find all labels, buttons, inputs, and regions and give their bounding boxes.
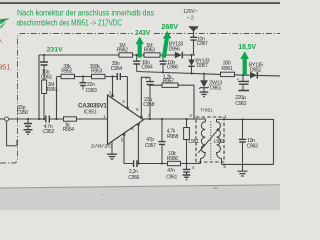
resistor R958 4.7k (vertical) — [167, 119, 190, 164]
junction rail M / D951 — [203, 73, 205, 75]
resistor R953 150k — [90, 64, 105, 79]
svg-text:+: + — [237, 78, 240, 83]
capacitor C953 22n — [80, 77, 98, 94]
svg-text:R958: R958 — [167, 134, 178, 140]
top border line — [0, 2, 280, 4]
svg-text:CA3035V1: CA3035V1 — [78, 102, 107, 109]
svg-text:C954: C954 — [111, 66, 122, 72]
svg-text:47n: 47n — [167, 168, 175, 174]
resistor R956 10k — [167, 151, 181, 166]
wire: input shield loop — [7, 121, 17, 146]
ground below C963 — [238, 164, 248, 176]
svg-text:120V~: 120V~ — [183, 9, 198, 15]
ground (pin 2/8/10) — [107, 142, 117, 159]
wire: 120V input feed — [193, 31, 195, 55]
120V~ input — [183, 9, 199, 31]
pin terminal nubs on triangle — [112, 95, 143, 136]
connector circle input — [5, 117, 9, 121]
capacitor C952 4.7n (series) — [43, 116, 54, 136]
wire: R957 branch — [150, 85, 194, 119]
capacitor C963 10n — [239, 119, 258, 164]
svg-text:268V: 268V — [161, 22, 178, 31]
junction output / R958 — [185, 118, 187, 120]
svg-text:D956: D956 — [169, 47, 180, 53]
svg-text:R963: R963 — [144, 47, 155, 53]
green 243V + arrow — [133, 28, 152, 58]
junction S / bias drop — [55, 118, 57, 120]
capacitor C950 15p — [17, 105, 33, 134]
svg-text:L952: L952 — [214, 139, 225, 145]
svg-text:+: + — [145, 77, 148, 82]
svg-text:R956: R956 — [167, 156, 178, 162]
svg-text:C964: C964 — [141, 65, 152, 71]
junction S / C950 — [27, 118, 29, 120]
junction rail M / D957 — [190, 72, 192, 74]
shield boundary chain line — [0, 34, 280, 164]
resistor R957 1.2k — [162, 74, 178, 87]
svg-text:rs: rs — [195, 26, 198, 30]
svg-text:L951: L951 — [188, 139, 199, 145]
junction bias / C953 — [82, 75, 84, 77]
resistor R954 1k — [63, 117, 77, 133]
adjustment arrow — [198, 129, 219, 153]
green 18,5V + arrow — [238, 42, 256, 75]
wire: bottom path W — [124, 163, 201, 165]
wire: rail T 231V — [39, 54, 195, 56]
small smudges — [101, 194, 106, 196]
junction rail T / C951 string — [43, 54, 45, 56]
diode D952 BY135 — [249, 63, 263, 79]
capacitor C956 2.2n (series) — [128, 160, 139, 181]
svg-text:abschirmblech des MI951 -> 217: abschirmblech des MI951 -> 217VDC — [17, 18, 123, 27]
capacitor C964 10n — [133, 55, 153, 72]
svg-text:C963: C963 — [247, 144, 258, 150]
op-amp U1 CA3035V1 triangle — [108, 95, 144, 145]
svg-text:2/8/10: 2/8/10 — [91, 144, 114, 149]
resistor R961 330 — [221, 60, 235, 76]
svg-text:e,: e, — [0, 38, 3, 45]
wire: input signal line S — [0, 118, 108, 120]
svg-text:C957: C957 — [145, 143, 156, 149]
svg-text:D952: D952 — [250, 67, 261, 73]
wire: op-amp output — [144, 118, 197, 120]
green checkmark icon — [0, 18, 9, 29]
svg-text:D957: D957 — [197, 63, 208, 69]
wire: transformer secondary out — [222, 119, 274, 164]
svg-text:C966: C966 — [167, 65, 178, 71]
svg-text:C962: C962 — [235, 101, 246, 107]
svg-text:R957: R957 — [163, 79, 174, 85]
junction output / C957 — [161, 118, 163, 120]
resistor R963 1M — [144, 43, 160, 57]
svg-text:C953: C953 — [86, 88, 97, 94]
junction W / R958-C961 — [185, 162, 187, 164]
junction rail T / D957 — [190, 54, 192, 56]
svg-text:243V: 243V — [135, 28, 150, 37]
svg-text:~ 2: ~ 2 — [187, 15, 194, 21]
wire: bias line — [57, 76, 128, 78]
svg-text:C961: C961 — [166, 174, 177, 180]
svg-text:18,5V: 18,5V — [238, 42, 256, 51]
transformer Tr951 — [188, 108, 227, 171]
paper background — [0, 0, 280, 210]
capacitor C957 47p — [145, 119, 166, 164]
junction rail M / C962 — [242, 74, 244, 76]
svg-text:IC951: IC951 — [84, 109, 98, 115]
capacitor C962 220u electrolytic — [235, 75, 249, 107]
junction secondary / C963 — [241, 118, 243, 120]
capacitor C967 10n — [190, 37, 208, 48]
resistor R962 1M — [117, 43, 133, 57]
primary L951 — [196, 119, 205, 164]
diode D956 BY133 — [169, 41, 184, 58]
wire: pin6 drop — [137, 124, 139, 164]
capacitor C961 47n — [166, 164, 190, 181]
svg-text:2,2n: 2,2n — [129, 169, 138, 175]
svg-text:C951: C951 — [41, 75, 52, 81]
green 268V + arrow — [161, 22, 178, 58]
diode D957 BY133 (vertical) — [188, 55, 209, 73]
svg-text:R954: R954 — [63, 127, 74, 133]
svg-text:C956: C956 — [128, 175, 139, 181]
svg-text:C950: C950 — [17, 110, 28, 116]
wire: drop bias to S — [56, 77, 58, 120]
junction rail M / C966 — [162, 71, 164, 73]
svg-text:R953: R953 — [91, 69, 102, 75]
capacitor C958 22u electrolytic — [143, 77, 154, 119]
dashed box — [196, 117, 224, 162]
junction C958 / R957 — [149, 84, 151, 86]
junction rail T / C966 — [162, 54, 164, 56]
svg-text:Nach korrektur der anschluss i: Nach korrektur der anschluss innerhalb d… — [17, 9, 154, 18]
wire: rail M — [137, 72, 280, 76]
junction S / R951 — [43, 118, 45, 120]
capacitor C954 33n (series) — [111, 61, 122, 80]
wire: pin4 drop — [126, 77, 128, 109]
wire: pin3 drop — [112, 77, 114, 97]
bottom margin below frame — [0, 185, 280, 210]
resistor R951 1M (vertical) — [42, 80, 59, 94]
top margin strip — [0, 0, 280, 2]
wire: pin5 drop — [123, 134, 125, 164]
resistor R952 33k — [61, 64, 75, 79]
svg-text:D951: D951 — [210, 86, 221, 92]
svg-text:Tr951: Tr951 — [200, 108, 213, 114]
capacitor C966 10n — [159, 55, 178, 72]
bottom frame line — [0, 184, 280, 188]
svg-text:C958: C958 — [143, 102, 154, 108]
svg-text:R952: R952 — [61, 69, 72, 75]
svg-text:R951: R951 — [47, 87, 58, 93]
zener D951 ZW13 — [199, 74, 222, 97]
capacitor C951 10n — [40, 55, 52, 119]
svg-text:951: 951 — [0, 63, 11, 72]
secondary L952 — [217, 119, 225, 164]
wire: pin9 riser and C958 top link — [141, 77, 150, 118]
svg-text:220µ: 220µ — [235, 95, 246, 101]
svg-text:R962: R962 — [117, 47, 128, 53]
svg-text:C967: C967 — [197, 41, 208, 47]
wire: left drop from rail corner — [38, 55, 40, 119]
junction output / C958 — [149, 118, 151, 120]
svg-text:231V: 231V — [47, 46, 63, 53]
junction S / left drop — [38, 118, 40, 120]
junction rail T / C964 — [136, 54, 138, 56]
core dotted line — [210, 122, 212, 161]
junction bias / pin3 — [111, 75, 113, 77]
svg-text:C952: C952 — [43, 129, 54, 135]
svg-text:R961: R961 — [221, 66, 232, 72]
pin labels — [91, 91, 151, 149]
junction W / pin6 — [137, 162, 139, 164]
pin7 tick — [147, 118, 149, 119]
junction W / C957 — [161, 162, 163, 164]
